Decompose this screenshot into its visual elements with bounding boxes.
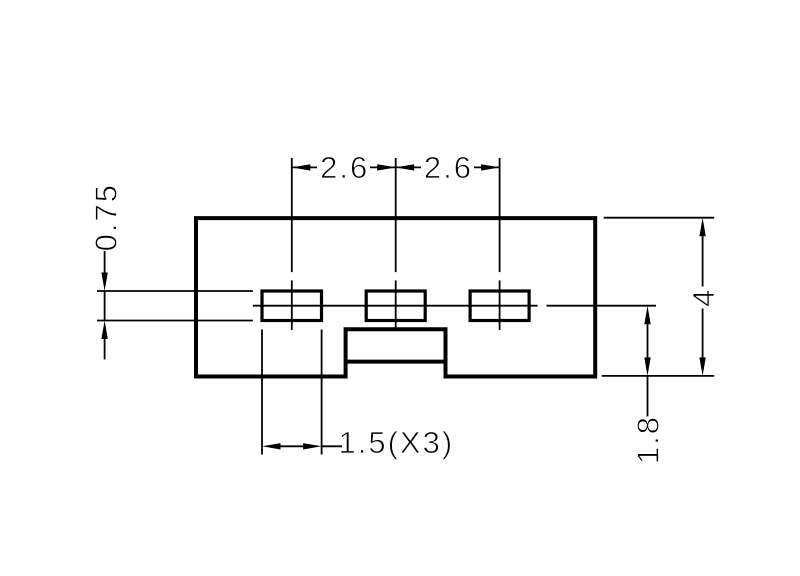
svg-text:1.5(X3): 1.5(X3) — [339, 425, 455, 460]
svg-text:2.6: 2.6 — [320, 150, 369, 185]
pad 3 — [470, 291, 529, 321]
dimension 1.8: dim line and arrows — [644, 306, 650, 325]
pad 1 — [262, 291, 322, 321]
svg-text:0.75: 0.75 — [89, 183, 124, 251]
vertical centerline pad1 — [291, 158, 293, 272]
vertical centerline pad3 — [499, 158, 501, 272]
dimension 2.6 right: arrows — [396, 164, 415, 170]
dimension 1.8: text — [631, 415, 666, 464]
vertical centerline pad2 — [395, 158, 397, 272]
dimension 1.5(X3): extension lines — [261, 330, 263, 455]
dimension 0.75: text — [89, 183, 124, 251]
dimension 0.75: extension lines — [97, 290, 253, 292]
dimension 4: dim line and arrows — [699, 218, 705, 237]
tab inner step line — [346, 360, 446, 364]
svg-text:1.8: 1.8 — [631, 415, 666, 464]
dimension 2.6 left: line — [292, 166, 317, 168]
dimension 4: text — [686, 288, 721, 307]
body outline — [196, 218, 595, 376]
svg-text:2.6: 2.6 — [424, 150, 473, 185]
horizontal centerline — [253, 305, 538, 307]
dimension 4: extension lines — [604, 217, 715, 219]
dimension 0.75: dim line and arrows — [104, 251, 106, 274]
pad 2 — [366, 291, 425, 321]
svg-text:4: 4 — [686, 288, 721, 307]
dimension 2.6 left: arrows — [292, 164, 311, 170]
dimension 2.6 right: line — [396, 166, 421, 168]
dimension 1.5(X3): dim line and arrows — [262, 443, 281, 449]
